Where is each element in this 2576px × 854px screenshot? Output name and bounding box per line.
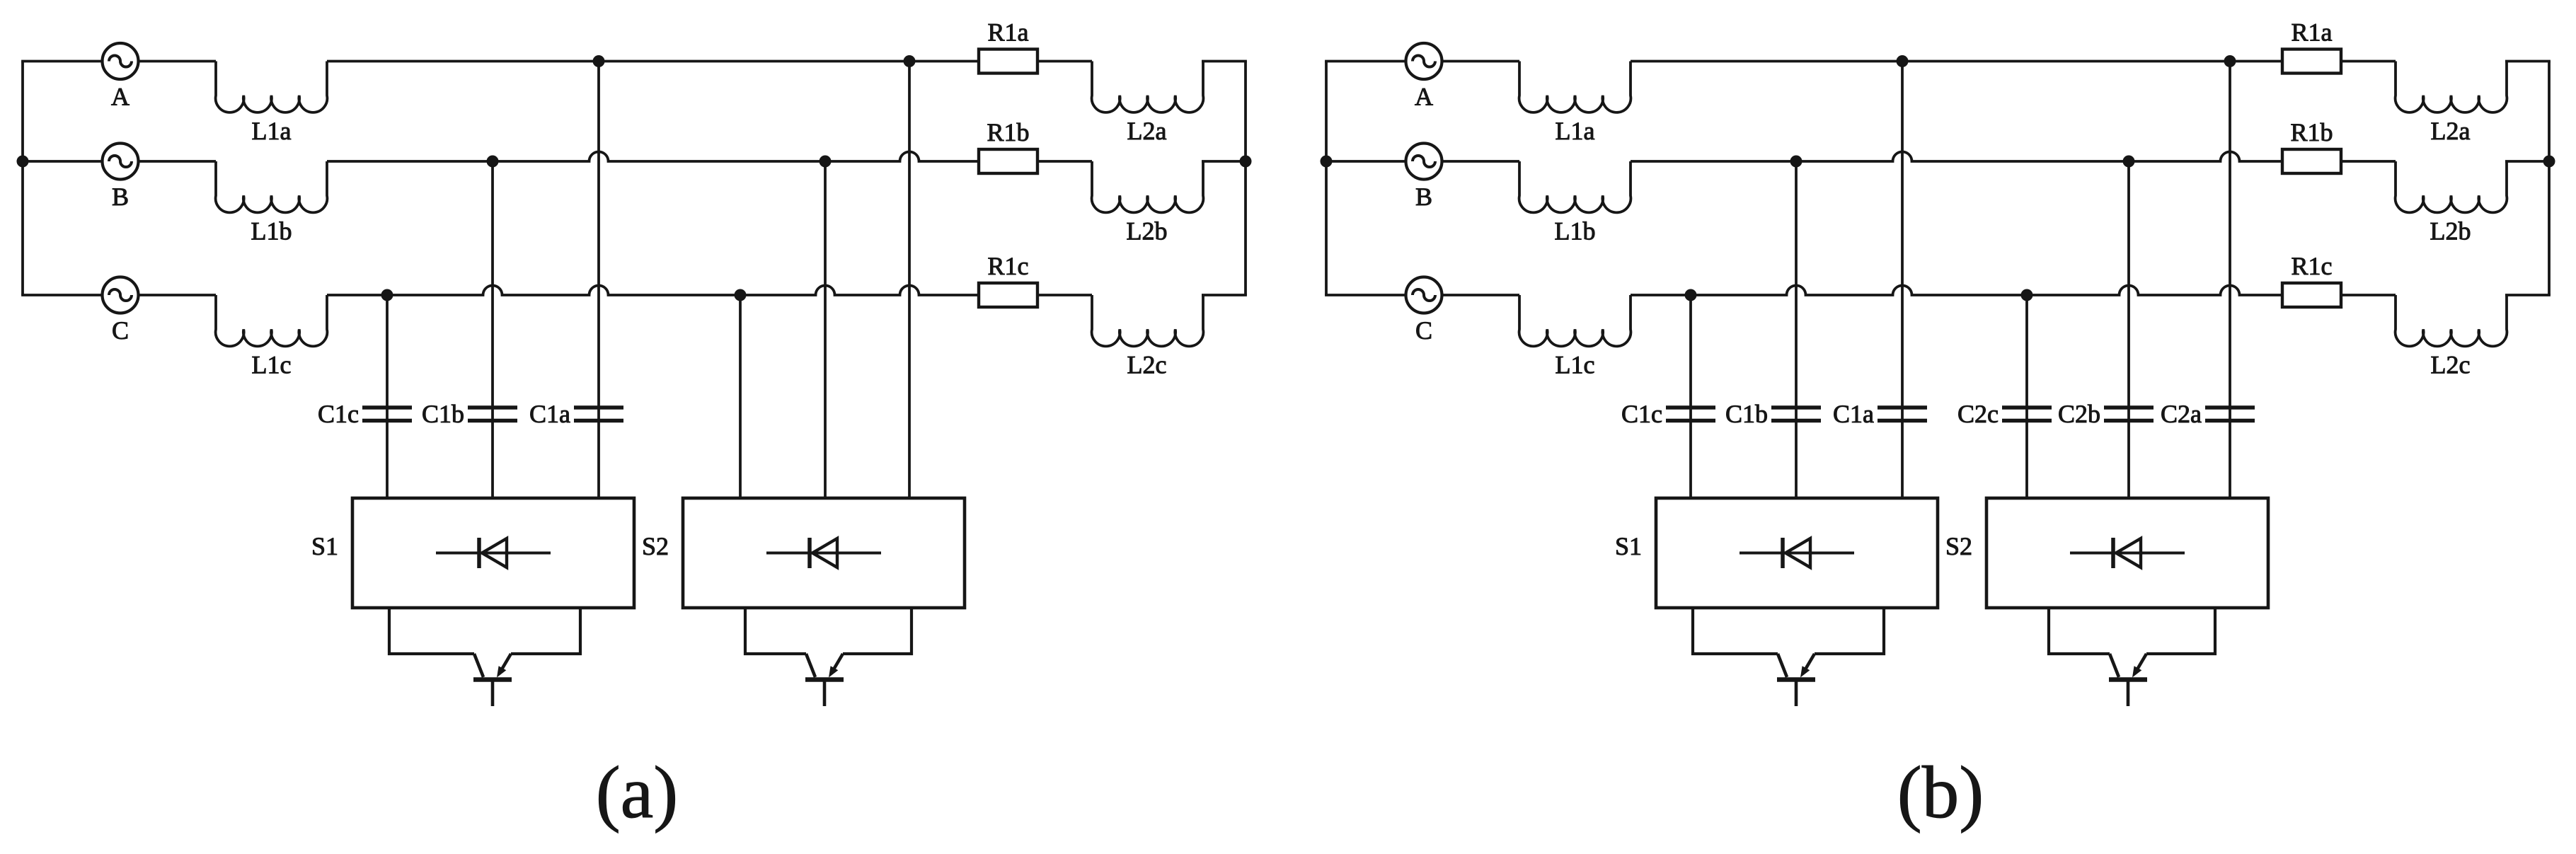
wire C1b vertical phase to S1 (b) [1795, 161, 1798, 498]
wire S2 input c vertical (b) [2025, 295, 2028, 498]
capacitor C2a (b) [2205, 408, 2255, 421]
junction dot left bus phase B (b) [1321, 156, 1333, 168]
wire phase A source to L1a (b) [1442, 60, 1520, 63]
svg-text:C1b: C1b [1725, 400, 1768, 428]
wire L2a to right bus (a) [1202, 60, 1247, 63]
svg-text:S2: S2 [642, 532, 669, 560]
svg-text:C1a: C1a [529, 400, 570, 428]
svg-text:R1c: R1c [988, 252, 1029, 280]
wire phase C source to L1c (a) [139, 294, 217, 296]
junction dot S2 input a tap (b) [2224, 55, 2236, 67]
junction dot right bus phase B (b) [2543, 156, 2555, 168]
svg-text:L2c: L2c [2431, 351, 2471, 379]
AC source C (b) [1406, 277, 1442, 313]
switch box S2 (a) [683, 498, 965, 608]
circuit (a) [17, 18, 1252, 834]
wire right bus (a) [1244, 62, 1247, 296]
svg-text:L1b: L1b [1555, 217, 1596, 246]
wire C1c vertical phase to S1 (b) [1689, 295, 1692, 498]
wire L2a to right bus (b) [2505, 60, 2551, 63]
svg-text:R1c: R1c [2292, 252, 2333, 280]
svg-text:C1a: C1a [1833, 400, 1874, 428]
switch box S2 (b) [1986, 498, 2268, 608]
wire S2 input a vertical (b) [2229, 62, 2231, 499]
capacitor C1b (b) [1771, 408, 1821, 421]
svg-text:C1c: C1c [318, 400, 359, 428]
switch box S1 (b) [1656, 498, 1938, 608]
AC source B (b) [1406, 144, 1442, 180]
capacitor C2c (b) [2002, 408, 2052, 421]
wire phase C source to L1c (b) [1442, 294, 1520, 296]
wire right bus (b) [2548, 62, 2551, 296]
wire phase B source to L1b (a) [139, 160, 217, 163]
svg-text:C2a: C2a [2161, 400, 2202, 428]
wire phase B bus to source (b) [1325, 160, 1405, 163]
svg-text:S1: S1 [311, 532, 338, 560]
svg-text:L2a: L2a [1127, 117, 1167, 145]
junction dot S2 input a tap (a) [904, 55, 916, 67]
svg-text:C: C [112, 316, 129, 345]
junction dot C1b tap (a) [487, 156, 499, 168]
switch box S1 (a) [352, 498, 634, 608]
capacitor C1c (a) [362, 408, 412, 421]
wire phase B bus to source (a) [21, 160, 102, 163]
svg-text:C: C [1415, 316, 1432, 345]
svg-text:B: B [112, 183, 129, 211]
resistor R1c (a) [979, 283, 1037, 307]
transistor S2 (b) [2109, 654, 2147, 706]
resistor R1a (a) [979, 50, 1037, 74]
wire S2 input b vertical (a) [824, 161, 827, 498]
wire phase A bus to source (b) [1325, 60, 1405, 63]
svg-text:A: A [1415, 83, 1433, 111]
junction dot C1a tap (b) [1897, 55, 1909, 67]
wire L2b to right bus (a) [1202, 160, 1247, 163]
transistor S2 (a) [805, 654, 844, 706]
wire S1 bottom stubs and rails (b) [1693, 608, 1884, 654]
inductor L1a (a) [216, 62, 328, 112]
wire C1b vertical phase to S1 (a) [491, 161, 494, 498]
svg-text:R1a: R1a [988, 18, 1029, 47]
svg-text:S1: S1 [1615, 532, 1642, 560]
junction dot C1c tap (b) [1685, 289, 1697, 301]
wire phase A L1a to R1a (b) [1631, 60, 2282, 63]
svg-text:C2c: C2c [1957, 400, 1999, 428]
wire L2c to right bus (b) [2505, 294, 2551, 296]
junction dot S2 input c tap (b) [2021, 289, 2033, 301]
svg-text:(a): (a) [596, 751, 679, 833]
wire phase A bus to source (a) [21, 60, 102, 63]
junction dot S2 input c tap (a) [735, 289, 747, 301]
resistor R1b (b) [2282, 149, 2341, 173]
inductor L2c (a) [1092, 295, 1204, 346]
inductor L2b (a) [1092, 161, 1204, 212]
capacitor C1b (a) [468, 408, 517, 421]
svg-text:L1a: L1a [1556, 117, 1595, 145]
diode inside S2 (b) [2070, 538, 2185, 568]
AC source A (b) [1406, 43, 1442, 79]
svg-text:L1c: L1c [252, 351, 292, 379]
wire phase B source to L1b (b) [1442, 160, 1520, 163]
wire R1b to L2b (b) [2341, 160, 2396, 163]
diode inside S2 (a) [766, 538, 881, 568]
svg-text:L1c: L1c [1556, 351, 1595, 379]
svg-text:L2a: L2a [2431, 117, 2471, 145]
wire L2c to right bus (a) [1202, 294, 1247, 296]
wire C1a vertical phase to S1 (a) [597, 62, 600, 499]
wire phase C L1c to R1c (a) [327, 286, 979, 296]
junction dot left bus phase B (a) [17, 156, 29, 168]
wire S1 bottom stubs and rails (a) [389, 608, 580, 654]
svg-text:S2: S2 [1945, 532, 1972, 560]
inductor L2a (b) [2396, 62, 2507, 112]
wire L2b to right bus (b) [2505, 160, 2551, 163]
wire R1b to L2b (a) [1037, 160, 1092, 163]
svg-text:C2b: C2b [2058, 400, 2100, 428]
wire left bus (a) [21, 62, 24, 296]
wire S2 input a vertical (a) [908, 62, 911, 499]
capacitor C2b (b) [2104, 408, 2154, 421]
wire S2 bottom stubs and rails (b) [2049, 608, 2215, 654]
wire S2 bottom stubs and rails (a) [745, 608, 912, 654]
inductor L1b (a) [216, 161, 328, 212]
svg-text:R1a: R1a [2292, 18, 2333, 47]
junction dot C1a tap (a) [593, 55, 605, 67]
svg-text:A: A [111, 83, 130, 111]
diode inside S1 (a) [436, 538, 551, 568]
junction dot S2 input b tap (b) [2123, 156, 2135, 168]
svg-text:L2b: L2b [2430, 217, 2471, 246]
svg-text:L1a: L1a [252, 117, 292, 145]
wire phase C bus to source (b) [1325, 294, 1405, 296]
wire R1c to L2c (a) [1037, 294, 1092, 296]
junction dot S2 input b tap (a) [820, 156, 832, 168]
wire C1a vertical phase to S1 (b) [1901, 62, 1904, 499]
inductor L1b (b) [1519, 161, 1631, 212]
junction dot right bus phase B (a) [1240, 156, 1252, 168]
svg-text:C1c: C1c [1621, 400, 1662, 428]
inductor L1a (b) [1519, 62, 1631, 112]
AC source C (a) [103, 277, 139, 313]
junction dot C1c tap (a) [381, 289, 393, 301]
resistor R1a (b) [2282, 50, 2341, 74]
junction dot C1b tap (b) [1790, 156, 1802, 168]
inductor L1c (a) [216, 295, 328, 346]
wire phase B L1b to R1b (b) [1631, 152, 2282, 162]
capacitor C1a (b) [1878, 408, 1927, 421]
svg-text:C1b: C1b [422, 400, 464, 428]
wire phase A source to L1a (a) [139, 60, 217, 63]
svg-text:L1b: L1b [251, 217, 292, 246]
wire R1a to L2a (a) [1037, 60, 1092, 63]
svg-text:B: B [1415, 183, 1432, 211]
diode inside S1 (b) [1740, 538, 1854, 568]
wire S2 input b vertical (b) [2127, 161, 2130, 498]
inductor L2c (b) [2396, 295, 2507, 346]
wire R1c to L2c (b) [2341, 294, 2396, 296]
svg-text:L2b: L2b [1127, 217, 1168, 246]
resistor R1c (b) [2282, 283, 2341, 307]
wire left bus (b) [1325, 62, 1328, 296]
svg-text:R1b: R1b [987, 118, 1029, 146]
svg-text:R1b: R1b [2290, 118, 2333, 146]
inductor L2a (a) [1092, 62, 1204, 112]
wire R1a to L2a (b) [2341, 60, 2396, 63]
wire C1c vertical phase to S1 (a) [386, 295, 389, 498]
wire phase A L1a to R1a (a) [327, 60, 979, 63]
AC source B (a) [103, 144, 139, 180]
svg-text:L2c: L2c [1127, 351, 1167, 379]
wire phase B L1b to R1b (a) [327, 152, 979, 162]
transistor S1 (a) [473, 654, 512, 706]
wire S2 input c vertical (a) [739, 295, 742, 498]
wire phase C L1c to R1c (b) [1631, 286, 2282, 296]
circuit (b) [1321, 18, 2555, 834]
inductor L2b (b) [2396, 161, 2507, 212]
inductor L1c (b) [1519, 295, 1631, 346]
capacitor C1c (b) [1666, 408, 1715, 421]
wire phase C bus to source (a) [21, 294, 102, 296]
transistor S1 (b) [1777, 654, 1815, 706]
capacitor C1a (a) [574, 408, 623, 421]
AC source A (a) [103, 43, 139, 79]
resistor R1b (a) [979, 149, 1037, 173]
svg-text:(b): (b) [1897, 751, 1984, 833]
